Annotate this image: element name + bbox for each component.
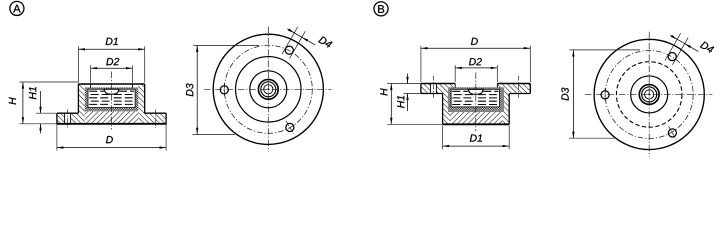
section A window bore left edge: [90, 85, 92, 88]
section A left hole centerline: [67, 110, 69, 129]
top view A bolt hole circle (dash-dot): [224, 45, 312, 133]
section B left hole centerline: [432, 76, 434, 98]
section A window bore right edge: [132, 85, 134, 88]
section A boss right wall hatch: [138, 85, 144, 124]
top view A upper-right mounting hole: [285, 46, 293, 54]
top view B bubble circle: [645, 90, 654, 99]
top view A left hole centerline: [223, 83, 225, 97]
dimension D4 (B) extension lines: [665, 33, 681, 60]
top view B lower hole centerline: [669, 126, 677, 139]
section B right hole centerline: [518, 76, 520, 98]
section B air bubble: [468, 89, 483, 94]
top view A bubble circle: [264, 85, 273, 94]
section A bottom insert hatch: [85, 111, 139, 123]
dimension D (A): [56, 125, 58, 151]
dimension D2 (B): [454, 65, 456, 82]
top view A vertical centerline: [267, 27, 269, 152]
top view A lower hole centerline: [286, 121, 294, 134]
dimension D3 (A): [186, 45, 259, 134]
top view B window circle: [631, 76, 668, 113]
top view A marking ring: [261, 82, 276, 97]
section A air bubble: [104, 89, 119, 94]
top view B bolt hole circle (dash-dot): [605, 50, 693, 138]
section B centerline: [475, 73, 477, 132]
section B liquid level dashes: [452, 90, 468, 92]
section B mounting hole right edge: [435, 84, 437, 94]
top view B vertical centerline: [648, 32, 650, 157]
section A vial chamber: [88, 89, 135, 107]
section A right hole centerline: [155, 110, 157, 129]
section B window bore right edge: [496, 84, 498, 88]
section B flange right hatch: [497, 84, 530, 94]
section A mounting hole right edge: [70, 113, 72, 124]
section B glass vial (stippled ring): [448, 87, 504, 112]
section A flange left wing hatch (right of hole): [71, 113, 79, 124]
top view B left mounting hole: [601, 91, 609, 99]
section A mounting hole left edge: [64, 113, 66, 124]
section B body right wall hatch: [502, 94, 509, 125]
section A boss left edge: [77, 84, 79, 113]
top view A lower mounting hole: [286, 123, 294, 131]
dimension D4 (B) dimension line: [670, 35, 698, 51]
section A flange right wing hatch: [145, 113, 166, 124]
top view B vial ring (thick): [639, 85, 659, 105]
section B window bore left edge: [454, 84, 456, 88]
dimension H1 (A): [36, 112, 56, 114]
dimension H (B): [387, 83, 420, 85]
section A flange outline: [57, 113, 166, 124]
section A boss left wall hatch: [78, 85, 84, 124]
variant label B (circled): [374, 2, 388, 16]
dimension D1 (B): [442, 126, 444, 150]
section B body outline: [442, 94, 444, 125]
dimension D4 (A) extension lines: [282, 27, 298, 54]
top view A window circle: [250, 71, 287, 108]
section A boss top edge: [78, 83, 144, 85]
dimension H (A): [19, 81, 78, 83]
top view A vial ring (thick): [258, 79, 278, 99]
dimension D3 (B): [561, 50, 640, 138]
section A centerline: [111, 72, 113, 130]
section A boss right edge: [144, 84, 146, 113]
top view B flange outer circle: [594, 39, 704, 149]
top view B left hole centerline: [604, 88, 606, 102]
section B mounting hole left edge: [429, 84, 431, 94]
top view B hidden body circle (dashed): [616, 62, 682, 128]
dimension D1 (A): [77, 46, 79, 82]
section B bottom insert hatch: [450, 112, 502, 124]
section A flange left wing hatch: [57, 113, 65, 124]
top view B upper-right mounting hole: [668, 53, 676, 61]
section B flange outline: [421, 83, 455, 85]
variant label A (circled): [10, 1, 24, 15]
top view B horizontal centerline: [585, 93, 713, 95]
dimension D2 (A): [90, 65, 92, 83]
top view A flange outer circle: [213, 34, 323, 144]
section B flange left hatch (right of hole): [436, 84, 455, 94]
top view A horizontal centerline: [204, 88, 332, 90]
top view A boss circle: [236, 57, 302, 123]
top view B lower mounting hole: [668, 129, 676, 137]
dimension H1 (B): [404, 93, 421, 95]
section A liquid level dashes: [89, 90, 104, 92]
section B body left wall hatch: [443, 94, 450, 125]
top view A left mounting hole: [220, 86, 228, 94]
section A flange bottom edge: [57, 123, 166, 125]
section B vial chamber: [451, 89, 499, 107]
dimension D (B): [420, 46, 422, 82]
section A glass vial (stippled ring): [85, 87, 139, 111]
top view B marking ring: [642, 87, 657, 102]
dimension D4 (A) dimension line: [287, 29, 315, 45]
section B flange left hatch: [421, 84, 431, 94]
